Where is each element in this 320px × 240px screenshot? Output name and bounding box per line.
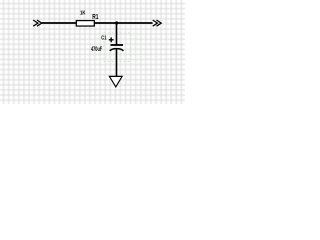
- svg-text:C1: C1: [101, 35, 106, 41]
- svg-text:470uF: 470uF: [91, 46, 102, 53]
- svg-text:R1: R1: [92, 14, 98, 21]
- svg-text:1K: 1K: [80, 11, 86, 17]
